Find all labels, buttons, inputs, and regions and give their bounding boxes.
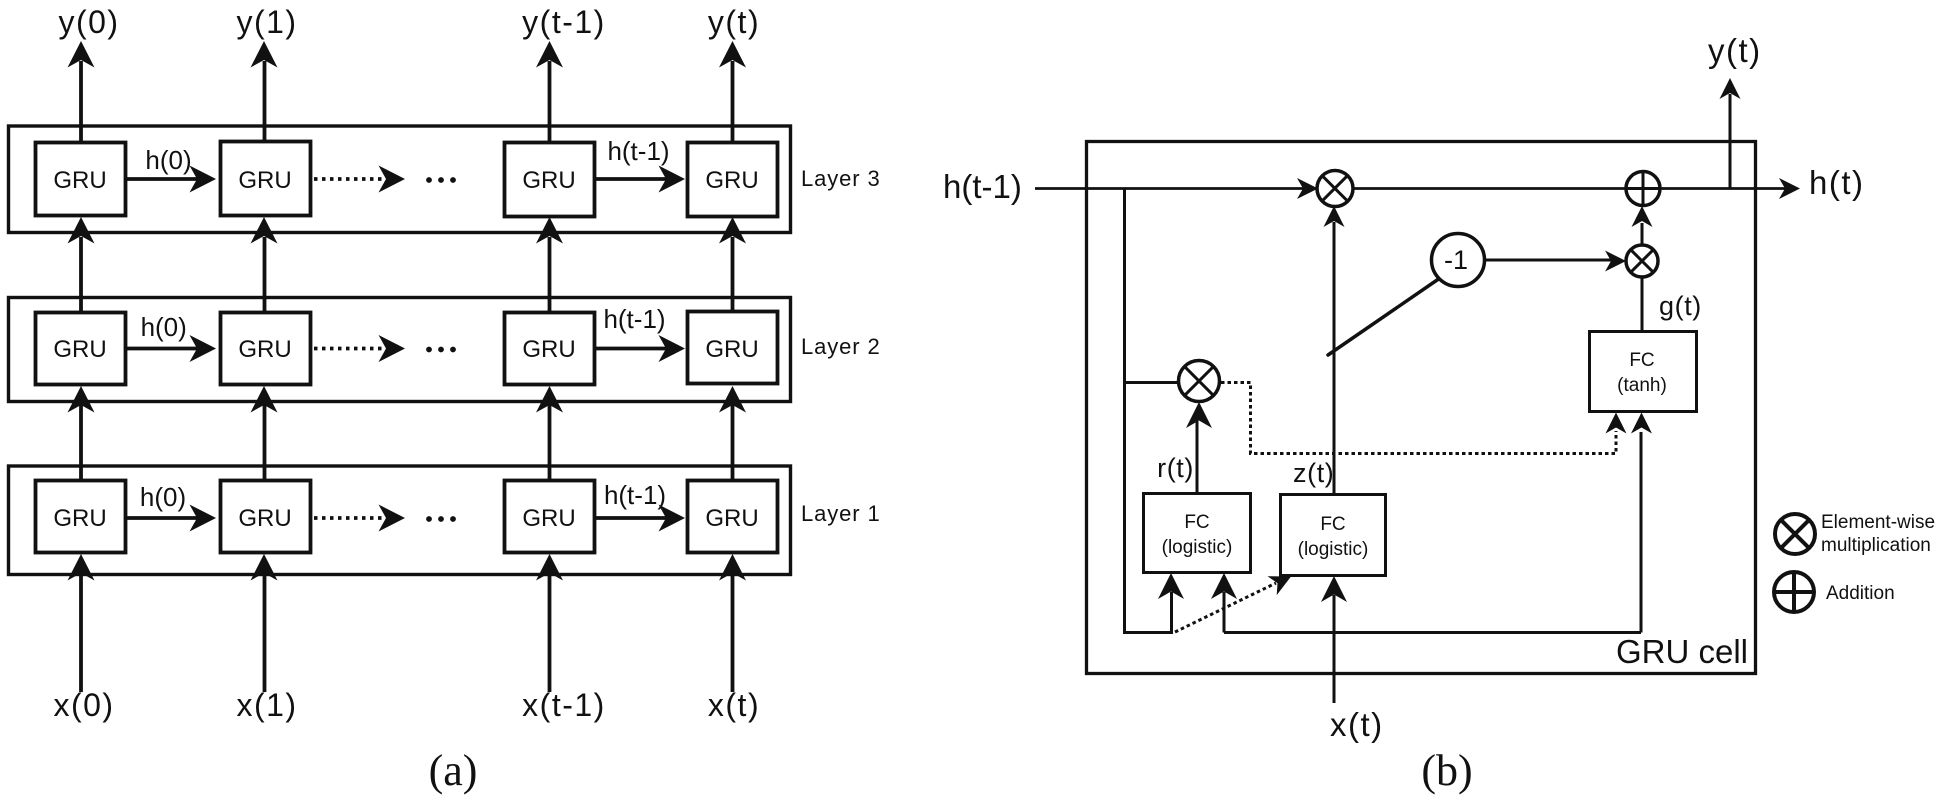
svg-text:h(t-1): h(t-1) <box>603 304 665 334</box>
svg-text:GRU: GRU <box>53 167 106 194</box>
svg-text:GRU: GRU <box>238 336 291 363</box>
svg-text:x(t-1): x(t-1) <box>522 687 606 723</box>
svg-text:Addition: Addition <box>1826 583 1895 604</box>
svg-text:y(t-1): y(t-1) <box>522 4 606 40</box>
svg-text:y(1): y(1) <box>236 4 297 40</box>
svg-text:GRU: GRU <box>522 336 575 363</box>
svg-text:x(t): x(t) <box>708 687 760 723</box>
svg-text:Layer 3: Layer 3 <box>801 166 881 191</box>
svg-text:GRU: GRU <box>705 167 758 194</box>
svg-text:GRU: GRU <box>238 505 291 532</box>
svg-text:h(0): h(0) <box>140 482 186 512</box>
svg-text:-1: -1 <box>1444 245 1468 275</box>
svg-text:(logistic): (logistic) <box>1298 539 1369 560</box>
svg-text:GRU cell: GRU cell <box>1616 633 1748 670</box>
svg-text:FC: FC <box>1629 350 1654 371</box>
svg-text:FC: FC <box>1320 514 1345 535</box>
svg-text:Element-wise: Element-wise <box>1821 512 1935 533</box>
svg-text:g(t): g(t) <box>1659 291 1702 321</box>
svg-text:GRU: GRU <box>705 505 758 532</box>
svg-text:GRU: GRU <box>522 167 575 194</box>
svg-text:h(t-1): h(t-1) <box>943 168 1022 205</box>
svg-text:x(1): x(1) <box>236 687 297 723</box>
svg-text:GRU: GRU <box>705 336 758 363</box>
svg-text:h(t-1): h(t-1) <box>607 136 669 166</box>
svg-text:GRU: GRU <box>53 336 106 363</box>
svg-text:y(t): y(t) <box>708 4 760 40</box>
svg-text:y(t): y(t) <box>1708 32 1762 69</box>
svg-text:Layer 1: Layer 1 <box>801 501 881 526</box>
svg-text:x(0): x(0) <box>53 687 114 723</box>
svg-text:h(t): h(t) <box>1809 164 1865 201</box>
svg-text:GRU: GRU <box>53 505 106 532</box>
svg-text:GRU: GRU <box>238 167 291 194</box>
svg-text:x(t): x(t) <box>1330 706 1384 743</box>
svg-text:h(0): h(0) <box>145 145 191 175</box>
svg-text:z(t): z(t) <box>1293 458 1334 488</box>
svg-text:h(t-1): h(t-1) <box>604 480 666 510</box>
svg-text:y(0): y(0) <box>58 4 119 40</box>
svg-text:Layer 2: Layer 2 <box>801 334 881 359</box>
svg-text:multiplication: multiplication <box>1821 535 1931 556</box>
svg-text:r(t): r(t) <box>1157 453 1194 483</box>
svg-text:(tanh): (tanh) <box>1617 375 1667 396</box>
svg-text:h(0): h(0) <box>141 312 187 342</box>
svg-text:FC: FC <box>1184 512 1209 533</box>
svg-text:(logistic): (logistic) <box>1162 537 1233 558</box>
svg-text:(a): (a) <box>429 746 478 795</box>
svg-text:(b): (b) <box>1421 746 1472 795</box>
svg-text:GRU: GRU <box>522 505 575 532</box>
